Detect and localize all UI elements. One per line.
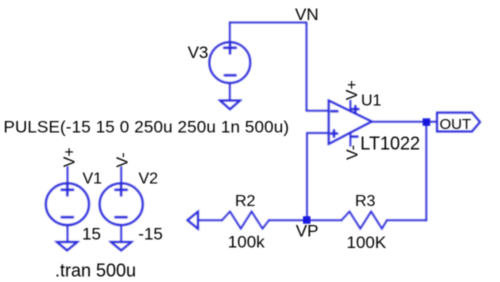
svg-text:15: 15 bbox=[82, 225, 101, 244]
svg-text:PULSE(-15 15 0 250u 250u 1n 50: PULSE(-15 15 0 250u 250u 1n 500u) bbox=[4, 117, 290, 136]
svg-text:VP: VP bbox=[296, 221, 319, 240]
svg-text:U1: U1 bbox=[361, 92, 382, 109]
svg-text:R3: R3 bbox=[355, 193, 376, 210]
svg-text:100k: 100k bbox=[228, 233, 265, 252]
svg-text:V2: V2 bbox=[139, 171, 159, 188]
svg-text:V-: V- bbox=[115, 152, 132, 167]
svg-text:V3: V3 bbox=[188, 43, 209, 62]
svg-text:-15: -15 bbox=[138, 225, 163, 244]
svg-text:.tran 500u: .tran 500u bbox=[55, 261, 136, 281]
svg-text:V1: V1 bbox=[83, 171, 103, 188]
svg-text:V-: V- bbox=[345, 145, 362, 160]
svg-text:VN: VN bbox=[295, 5, 319, 24]
svg-text:OUT: OUT bbox=[440, 116, 472, 133]
svg-text:V+: V+ bbox=[62, 147, 79, 167]
svg-text:R2: R2 bbox=[235, 193, 256, 210]
svg-text:100K: 100K bbox=[347, 233, 387, 252]
svg-text:V+: V+ bbox=[344, 80, 361, 100]
svg-text:LT1022: LT1022 bbox=[360, 134, 420, 154]
